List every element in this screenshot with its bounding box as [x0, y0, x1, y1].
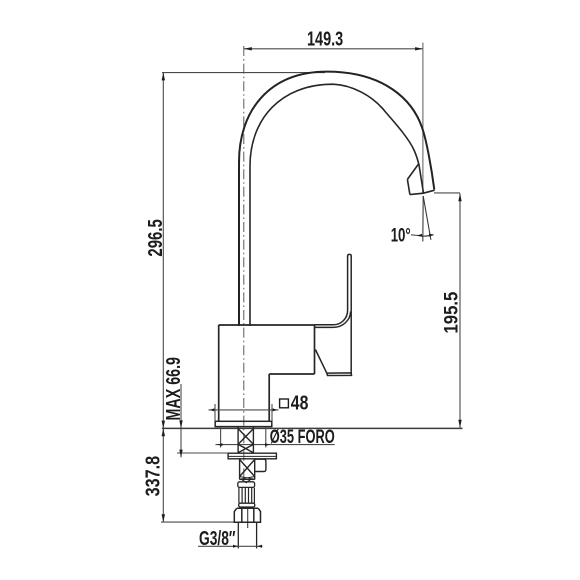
- angle ref tilted line: [423, 196, 431, 240]
- svg-text:296.5: 296.5: [145, 219, 167, 256]
- pipe center line: [247, 508, 249, 529]
- svg-text:MAX 66.9: MAX 66.9: [163, 357, 185, 421]
- dimension MAX 66.9: [177, 384, 228, 457]
- hose neck V: [242, 480, 250, 483]
- dimension G3/8: [198, 545, 263, 547]
- svg-text:195.5: 195.5: [441, 291, 462, 333]
- svg-text:48: 48: [291, 392, 309, 414]
- countertop line: [162, 427, 463, 429]
- svg-text:Ø35 FORO: Ø35 FORO: [270, 427, 335, 448]
- dimension 296.5: [162, 73, 325, 429]
- spout inner curve: [250, 84, 419, 326]
- dimension 195.5: [434, 193, 460, 428]
- svg-text:G3/8″: G3/8″: [199, 528, 236, 550]
- angle arc: [417, 235, 433, 236]
- dimension square 48: [280, 399, 289, 408]
- handle lever: [315, 254, 352, 375]
- threaded shank lower with X hatch: [240, 459, 255, 480]
- hose ribbed section: [239, 488, 255, 503]
- dimension O35 FORO: [216, 427, 335, 448]
- side mounting stud block: [255, 459, 266, 471]
- svg-text:149.3: 149.3: [307, 29, 343, 51]
- nozzle tip: [407, 164, 434, 195]
- hose upper ferrule: [238, 482, 255, 488]
- base flange: [215, 421, 272, 426]
- hose lower collar: [239, 503, 255, 507]
- supply pipe G3/8: [238, 522, 256, 548]
- body block: [219, 325, 315, 421]
- spout outer curve: [239, 72, 434, 326]
- dimension 149.3: [244, 43, 423, 194]
- angle ref vertical line: [422, 196, 424, 242]
- supply nut: [234, 508, 260, 522]
- horseshoe mounting washer: [228, 453, 276, 459]
- dimension 337.8: [161, 428, 238, 522]
- svg-text:337.8: 337.8: [143, 456, 165, 497]
- svg-text:10°: 10°: [391, 226, 411, 247]
- threaded shank upper with X hatch: [238, 427, 253, 454]
- centerline faucet axis: [243, 46, 245, 481]
